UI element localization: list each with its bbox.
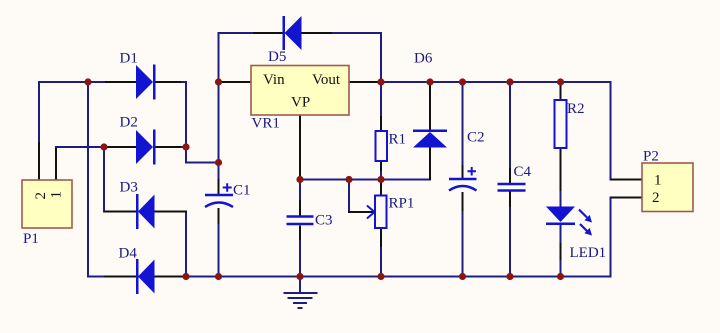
svg-text:D4: D4 (119, 246, 138, 262)
svg-text:1: 1 (654, 173, 662, 189)
svg-text:2: 2 (652, 190, 660, 206)
svg-text:C1: C1 (233, 183, 251, 199)
svg-text:D6: D6 (414, 51, 433, 67)
svg-text:2: 2 (33, 192, 49, 200)
svg-text:C2: C2 (467, 130, 485, 146)
svg-text:R1: R1 (389, 132, 407, 148)
svg-text:D1: D1 (120, 51, 138, 67)
svg-text:D5: D5 (268, 49, 286, 65)
svg-text:D2: D2 (120, 115, 138, 131)
svg-text:1: 1 (49, 191, 65, 199)
svg-text:LED1: LED1 (570, 245, 607, 261)
svg-text:P2: P2 (643, 149, 659, 165)
svg-text:D3: D3 (120, 180, 138, 196)
svg-text:Vin: Vin (263, 72, 285, 88)
svg-text:P1: P1 (23, 231, 39, 247)
svg-text:R2: R2 (567, 101, 585, 117)
svg-text:C3: C3 (315, 213, 333, 229)
svg-text:RP1: RP1 (389, 196, 415, 212)
svg-text:VR1: VR1 (252, 116, 280, 132)
svg-text:C4: C4 (514, 164, 532, 180)
svg-text:VP: VP (291, 95, 310, 111)
svg-text:Vout: Vout (312, 72, 341, 88)
